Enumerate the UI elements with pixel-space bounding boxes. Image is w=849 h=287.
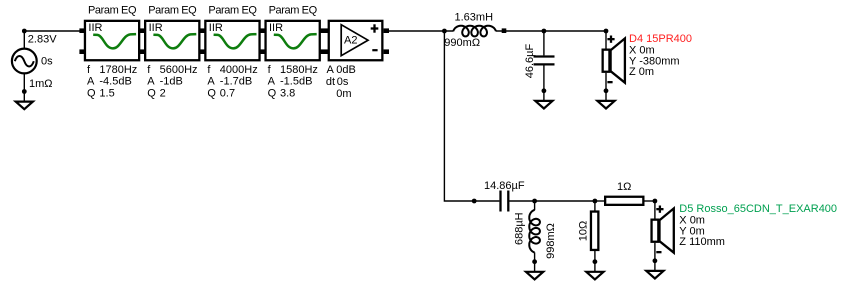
- EQ block U2 (Param EQ): [145, 5, 199, 100]
- svg-text:A: A: [207, 76, 215, 88]
- op-amp A2 plus pin mark: [371, 24, 379, 32]
- svg-text:IIR: IIR: [269, 22, 283, 34]
- ground (C1): [535, 101, 552, 109]
- ground (D4): [597, 101, 614, 109]
- svg-text:-1dB: -1dB: [160, 76, 183, 88]
- inductor L2 688uH coil: [529, 201, 540, 273]
- wire A2 out to L1: [389, 30, 454, 32]
- svg-text:688µH: 688µH: [514, 212, 526, 245]
- svg-text:dt: dt: [326, 76, 335, 88]
- node EQ1 left pin (in-): [79, 49, 84, 54]
- svg-text:1.5: 1.5: [99, 88, 114, 100]
- voltage source V1 sine: [15, 56, 34, 66]
- svg-text:1mΩ: 1mΩ: [29, 78, 53, 90]
- svg-text:2: 2: [160, 88, 166, 100]
- svg-text:0dB: 0dB: [336, 64, 356, 76]
- node pin connector 3 top row: [260, 28, 265, 33]
- speaker D5: [652, 201, 674, 272]
- op-amp A2 block: [329, 21, 383, 60]
- svg-text:-4.5dB: -4.5dB: [99, 76, 131, 88]
- svg-text:Z 110mm: Z 110mm: [679, 236, 725, 248]
- svg-text:D4 15PR400: D4 15PR400: [629, 33, 692, 45]
- ground (source): [16, 102, 33, 110]
- wire source top lead: [23, 31, 25, 49]
- svg-text:14.86µF: 14.86µF: [484, 180, 525, 192]
- node A2 aux output pin: [384, 49, 389, 54]
- node pin connector 3 bottom row: [260, 49, 265, 54]
- node EQ1 left pin (in+): [79, 28, 84, 33]
- svg-text:Q: Q: [147, 88, 156, 100]
- node L2 bottom terminal: [532, 259, 537, 264]
- EQ block U1 (Param EQ): [85, 5, 139, 100]
- svg-text:-1.5dB: -1.5dB: [280, 76, 312, 88]
- node A2 output pin: [384, 28, 389, 33]
- svg-text:D5 Rosso_65CDN_T_EXAR400: D5 Rosso_65CDN_T_EXAR400: [679, 203, 837, 215]
- svg-text:A2: A2: [344, 35, 357, 47]
- node junction D5 top: [653, 199, 658, 204]
- resistor R2 10ohm: [591, 201, 598, 273]
- svg-text:Param EQ: Param EQ: [208, 5, 257, 17]
- svg-text:1780Hz: 1780Hz: [99, 64, 137, 76]
- svg-text:-1.7dB: -1.7dB: [220, 76, 252, 88]
- svg-text:3.8: 3.8: [280, 88, 295, 100]
- svg-text:0s: 0s: [41, 56, 53, 68]
- wire C2 to R10 junction: [509, 200, 595, 202]
- capacitor C1 46.6uF: [534, 31, 555, 102]
- EQ block U4 (Param EQ): [266, 5, 320, 100]
- wire source bottom lead: [23, 73, 25, 102]
- node pin connector 2 bottom row: [200, 49, 205, 54]
- svg-text:Z 0m: Z 0m: [629, 66, 654, 78]
- node junction C1 top: [542, 29, 547, 34]
- wire bottom rail into C2: [474, 200, 499, 202]
- node source top junction: [22, 29, 27, 34]
- svg-text:f: f: [87, 64, 91, 76]
- svg-text:1580Hz: 1580Hz: [280, 64, 318, 76]
- svg-text:5600Hz: 5600Hz: [160, 64, 198, 76]
- svg-text:IIR: IIR: [88, 22, 102, 34]
- svg-text:0s: 0s: [337, 76, 349, 88]
- ground (R2): [586, 272, 603, 280]
- voltage source V1 circle: [12, 49, 37, 74]
- svg-text:f: f: [147, 64, 151, 76]
- svg-text:998mΩ: 998mΩ: [545, 223, 557, 259]
- node pin connector 2 top row: [200, 28, 205, 33]
- svg-text:IIR: IIR: [209, 22, 223, 34]
- wire top junction down to bottom rail: [444, 31, 474, 201]
- svg-text:IIR: IIR: [149, 22, 163, 34]
- svg-text:0.7: 0.7: [220, 88, 235, 100]
- node junction top rail / bottom branch: [442, 29, 447, 34]
- resistor R1 1ohm: [595, 197, 655, 205]
- svg-text:A: A: [327, 64, 335, 76]
- node junction D4 top: [604, 29, 609, 34]
- svg-text:Q: Q: [268, 88, 277, 100]
- wire source top to EQ1: [24, 30, 84, 32]
- node source bottom junction: [22, 89, 27, 94]
- node junction R2 top: [593, 199, 598, 204]
- ground (D5): [646, 271, 663, 279]
- svg-text:Param EQ: Param EQ: [269, 5, 318, 17]
- inductor L1 1.63mH coil: [453, 26, 496, 37]
- svg-text:10Ω: 10Ω: [577, 221, 589, 241]
- svg-text:0m: 0m: [336, 88, 351, 100]
- svg-text:A: A: [147, 76, 155, 88]
- node pin connector 4 top row: [320, 28, 328, 33]
- svg-text:1.63mH: 1.63mH: [455, 12, 494, 24]
- node pin connector 1 bottom row: [140, 49, 145, 54]
- svg-text:Q: Q: [207, 88, 216, 100]
- node D4 bottom terminal: [604, 88, 609, 93]
- node pin connector 4 bottom row: [320, 49, 328, 54]
- node junction L2 top: [532, 199, 537, 204]
- svg-text:f: f: [268, 64, 272, 76]
- svg-text:Param EQ: Param EQ: [148, 5, 197, 17]
- svg-text:f: f: [207, 64, 211, 76]
- svg-text:46.6µF: 46.6µF: [524, 43, 536, 78]
- svg-text:A: A: [268, 76, 276, 88]
- EQ block U3 (Param EQ): [205, 5, 259, 100]
- svg-text:2.83V: 2.83V: [28, 34, 57, 46]
- svg-text:990mΩ: 990mΩ: [444, 37, 480, 49]
- node R2 bottom terminal: [593, 259, 598, 264]
- svg-text:Q: Q: [87, 88, 96, 100]
- svg-text:4000Hz: 4000Hz: [220, 64, 258, 76]
- speaker D4: [603, 31, 625, 102]
- svg-text:A: A: [87, 76, 95, 88]
- ground (L2): [526, 272, 543, 280]
- node C1 bottom terminal: [542, 88, 547, 93]
- node pin connector 1 top row: [140, 28, 145, 33]
- node C2 left terminal: [472, 199, 477, 204]
- op-amp A2 minus pin mark: [372, 49, 377, 51]
- svg-text:Param EQ: Param EQ: [88, 5, 137, 17]
- wire L1 right lead to rail: [496, 30, 606, 32]
- node D5 bottom terminal: [653, 258, 658, 263]
- svg-text:1Ω: 1Ω: [617, 181, 631, 193]
- capacitor C2 14.86uF: [501, 191, 509, 212]
- node L1 right terminal: [502, 28, 507, 33]
